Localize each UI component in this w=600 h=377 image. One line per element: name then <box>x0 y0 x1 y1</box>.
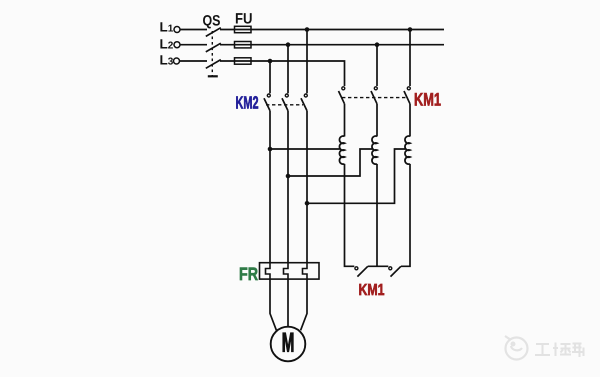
wire L3 drop to KM2 contact 1 <box>269 61 271 93</box>
fuse FU3 <box>235 58 252 64</box>
wire L2 left segment <box>180 44 207 46</box>
thermal relay FR heater 2 <box>284 263 289 279</box>
terminal L1 <box>174 27 180 33</box>
node dot tap 2 <box>286 174 291 179</box>
autotransformer winding T1 <box>339 136 344 164</box>
svg-text:QS: QS <box>203 13 221 30</box>
contactor KM2 contact 2 <box>282 94 288 111</box>
node dot L2 to KM2 <box>286 42 291 47</box>
wire L1 drop to KM2 contact 3 <box>306 30 308 94</box>
wire L2 drop to KM2 contact 2 <box>287 45 289 94</box>
svg-text:FR: FR <box>239 264 258 284</box>
contactor KM1 contact 1 <box>339 87 345 104</box>
switch QS pole 3 blade <box>206 60 221 69</box>
wire winding T1 bottom down <box>345 164 355 266</box>
wire FR to motor middle <box>287 279 289 327</box>
node dot L3 to KM2 <box>268 59 273 64</box>
wire L2 drop to KM1 contact 2 <box>376 45 378 86</box>
wire KM2 contact 3 down to FR <box>306 111 308 263</box>
wire winding T3 bottom down <box>401 164 410 266</box>
wire KM1 contact 2 to winding T2 <box>376 104 378 137</box>
contactor KM1 contact 2 <box>371 87 377 104</box>
contactor KM1 linkage dashed <box>342 97 406 99</box>
wire between star contacts <box>368 265 389 267</box>
wire KM2 contact 2 down to FR <box>287 111 289 263</box>
wire tap 2 to winding T2 <box>288 149 372 176</box>
wire KM1 contact 3 to winding T3 <box>409 104 411 137</box>
switch QS handle arrow <box>208 75 218 77</box>
terminal L2 <box>174 42 180 48</box>
fuse FU1 <box>235 26 252 32</box>
node dot L1 to KM1 <box>408 27 413 32</box>
autotransformer winding T2 <box>372 136 377 164</box>
thermal relay FR heater 3 <box>303 263 308 279</box>
contactor KM1 contact 3 <box>404 87 410 104</box>
wire tap 1 to winding T1 <box>270 148 340 150</box>
watermark text 工控帮 <box>535 343 584 358</box>
wire L3 left segment <box>180 60 208 62</box>
switch QS pole 1 blade <box>206 28 221 37</box>
autotransformer winding T3 <box>405 136 410 164</box>
contactor KM2 contact 1 <box>264 94 270 111</box>
motor M circle <box>271 327 306 362</box>
watermark logo circle <box>505 336 528 360</box>
contactor KM1 star contact 1 <box>355 266 368 276</box>
contactor KM2 contact 3 <box>301 94 307 111</box>
wire FR to motor right <box>301 279 307 330</box>
wire KM2 contact 1 down to FR <box>269 111 271 263</box>
wire L3 bus with corner down to KM1 contact <box>220 61 345 86</box>
wire winding T2 bottom down <box>376 164 378 266</box>
wire L2 bus <box>220 44 444 46</box>
wire FR to motor left <box>270 279 276 330</box>
svg-text:M: M <box>282 327 295 357</box>
fuse FU2 <box>235 42 252 48</box>
wire tap 3 to winding T3 <box>307 149 405 203</box>
node dot tap 1 <box>268 147 273 152</box>
contactor KM1 star contact 2 <box>389 266 401 276</box>
node dot L1 to KM2 <box>305 27 310 32</box>
svg-text:KM1: KM1 <box>359 282 385 299</box>
wire L1 drop to KM1 contact 3 <box>409 30 411 87</box>
contactor KM2 linkage dashed <box>266 104 303 106</box>
node dot tap 3 <box>305 201 310 206</box>
switch QS pole 2 blade <box>206 43 221 52</box>
svg-text:KM1: KM1 <box>414 90 441 110</box>
switch QS linkage dashed line <box>211 31 213 76</box>
wire L1 bus <box>220 29 444 31</box>
terminal L3 <box>174 58 180 64</box>
node dot L2 to KM1 <box>375 42 380 47</box>
svg-text:FU: FU <box>235 11 253 28</box>
wire L1 left segment <box>180 29 207 31</box>
wire KM1 contact 1 to winding T1 <box>344 104 346 137</box>
thermal relay FR heater 1 <box>266 263 271 279</box>
svg-text:KM2: KM2 <box>236 93 259 113</box>
thermal relay FR box <box>260 263 320 279</box>
